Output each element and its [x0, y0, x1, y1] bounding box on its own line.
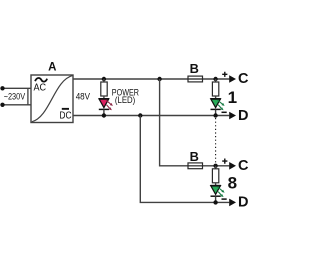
wire input L [3, 87, 32, 89]
arrow to C1 [229, 75, 236, 83]
LED 8 cathode bar [211, 195, 221, 197]
svg-text:8: 8 [228, 174, 237, 193]
svg-text:AC: AC [34, 83, 47, 94]
LED 1 cathode bar [211, 108, 221, 110]
LED 8 light arrows [218, 187, 225, 197]
node power LED bottom [102, 113, 106, 117]
svg-text:B: B [190, 149, 199, 164]
arrow to D8 [229, 199, 236, 207]
AC tilde [35, 78, 47, 82]
terminal dot input L [0, 86, 4, 90]
wire vertical return of module 8 [140, 116, 229, 203]
node return branch on bottom wire [138, 113, 142, 117]
LED power light arrows [106, 100, 113, 110]
minus sign module 8 [222, 198, 227, 200]
DC overbar [62, 108, 69, 110]
wire module 1 LED lead [215, 96, 217, 99]
wire module 1 cathode lead [215, 109, 217, 115]
svg-text:48V: 48V [76, 91, 91, 101]
wire power branch mid [103, 96, 105, 99]
LED 1 (green) [211, 99, 221, 108]
wire 48V- bottom [73, 115, 229, 117]
node feed branch on top wire [157, 77, 161, 81]
node power LED top [102, 77, 106, 81]
wire vertical feed to module 8 [160, 79, 230, 166]
wire module 8 resistor lead [215, 166, 217, 170]
plus sign module 1 [222, 72, 227, 77]
LED power cathode bar [99, 108, 109, 110]
arrow to C8 [229, 162, 236, 170]
svg-text:~230V: ~230V [4, 91, 26, 101]
minus sign module 1 [222, 111, 227, 113]
node D8 [213, 200, 217, 204]
svg-text:A: A [48, 62, 56, 74]
wire power branch upper [103, 79, 105, 83]
wire module 1 resistor lead [215, 79, 217, 83]
input connector bar [27, 88, 29, 105]
svg-text:DC: DC [59, 110, 71, 121]
resistor module 1 [212, 82, 218, 96]
node D1 [213, 113, 217, 117]
svg-text:C: C [238, 71, 249, 87]
plus sign module 8 [222, 159, 227, 164]
fuse B1 [188, 76, 203, 82]
power supply A box [31, 75, 73, 123]
resistor power [101, 82, 107, 96]
svg-text:B: B [190, 61, 199, 76]
LED 8 (green) [211, 186, 221, 195]
resistor module 8 [212, 169, 218, 183]
svg-text:(LED): (LED) [115, 95, 135, 105]
power supply A diagonal [32, 76, 73, 122]
svg-text:D: D [238, 108, 248, 124]
svg-text:D: D [238, 195, 248, 211]
terminal dot input N [0, 103, 4, 107]
wire power branch lower [103, 109, 105, 115]
LED 1 light arrows [218, 100, 225, 110]
arrow to D1 [229, 112, 236, 120]
fuse B2 [188, 163, 203, 169]
wire 48V+ top [73, 78, 229, 80]
wire module 8 cathode lead [215, 196, 217, 202]
node C8 [213, 164, 217, 168]
wire input N [3, 104, 32, 106]
LED power (red) [99, 99, 109, 108]
wire module 8 LED lead [215, 183, 217, 186]
svg-text:1: 1 [228, 88, 237, 107]
node C1 [213, 77, 217, 81]
dotted continuation line [215, 118, 217, 164]
svg-text:C: C [238, 158, 249, 174]
